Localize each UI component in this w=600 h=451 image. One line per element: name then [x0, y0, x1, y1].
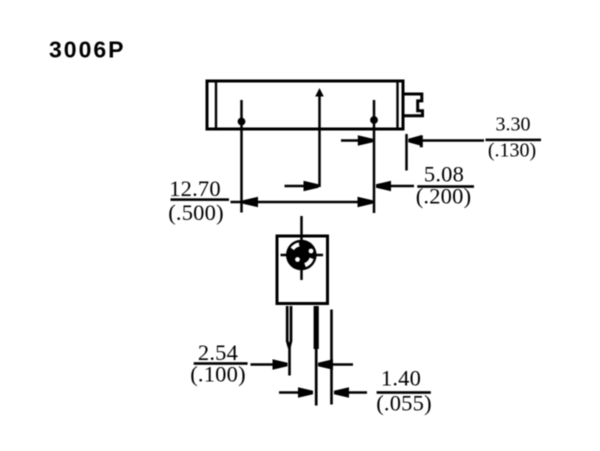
dimension 1.40 fraction bar: [377, 391, 431, 394]
end view left pin outline: [287, 306, 291, 348]
dimension 12.70 fraction bar: [171, 198, 230, 201]
pin 3 terminal dot: [370, 116, 378, 124]
dimension 3.30 fraction bar: [486, 139, 542, 142]
dimension 2.54 fraction bar: [194, 362, 248, 365]
trimmer body (side view) outline: [207, 81, 403, 129]
end view right pin: [314, 306, 319, 349]
pin 2 lead line (center, wiper): [318, 94, 321, 187]
dimension 1.40 left arrow: [279, 387, 313, 397]
screw slot white arc lower-right: [305, 258, 312, 265]
svg-text:(.055): (.055): [376, 391, 432, 416]
body inner right line: [396, 81, 398, 129]
dimension 5.08 fraction bar: [417, 185, 474, 188]
adjustment screw protrusion (right end): [404, 94, 423, 116]
adjustment screw head (filled circle): [286, 240, 317, 271]
end view left pin extension line: [288, 347, 291, 376]
svg-text:3.30: 3.30: [496, 114, 531, 136]
dimension 12.70 left arrowhead: [243, 197, 258, 207]
dimension 5.08 right arrow and leader: [376, 181, 414, 191]
screw slot white arc upper-left: [292, 244, 299, 249]
dimension 2.54 left arrow: [251, 359, 288, 369]
screw white dot right: [309, 249, 314, 254]
svg-text:1.40: 1.40: [381, 366, 421, 391]
body inner left line: [215, 81, 217, 129]
trimmer body (end view) outline: [277, 236, 328, 304]
svg-text:3006P: 3006P: [49, 37, 126, 63]
dimension 12.70 right arrowhead: [358, 197, 373, 207]
dimension 5.08 left arrow: [285, 181, 319, 191]
dimension 12.70 line: [231, 201, 375, 204]
svg-text:(.200): (.200): [416, 184, 472, 209]
pin 1 terminal dot: [238, 118, 246, 126]
dimension 3.30 left arrow: [341, 135, 373, 145]
end view right pin extension line: [315, 349, 318, 406]
screw white dot center: [295, 257, 300, 262]
end view centerline: [300, 216, 303, 280]
pin 1 lead line (left): [240, 100, 243, 213]
dimension 1.40 extension line: [330, 310, 333, 405]
wiper arrowhead: [315, 88, 324, 97]
pin 3 lead line (right): [373, 100, 376, 213]
svg-text:12.70: 12.70: [169, 176, 221, 201]
screw crosshair horizontal: [281, 254, 324, 256]
dimension 2.54 right arrow: [318, 359, 353, 369]
svg-text:(.500): (.500): [168, 200, 224, 225]
dimension 1.40 right arrow: [334, 387, 367, 397]
svg-text:(.100): (.100): [190, 362, 246, 387]
dimension 3.30 right arrow and leader: [408, 135, 484, 147]
dimension 3.30 extension line: [405, 134, 408, 171]
svg-text:(.130): (.130): [488, 140, 536, 162]
